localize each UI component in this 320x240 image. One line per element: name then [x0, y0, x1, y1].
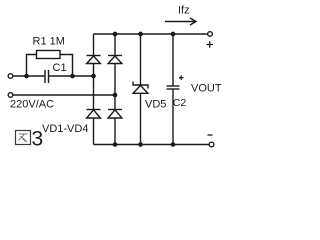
svg-text:VD1-VD4: VD1-VD4 — [42, 123, 88, 135]
svg-text:VOUT: VOUT — [191, 83, 222, 95]
svg-text:C2: C2 — [173, 97, 187, 109]
svg-text:R1 1M: R1 1M — [33, 36, 65, 48]
svg-text:220V/AC: 220V/AC — [10, 99, 54, 111]
svg-text:VD5: VD5 — [145, 99, 166, 111]
svg-text:C1: C1 — [53, 62, 67, 74]
svg-text:3: 3 — [32, 128, 44, 151]
svg-text:Ifz: Ifz — [178, 5, 190, 17]
